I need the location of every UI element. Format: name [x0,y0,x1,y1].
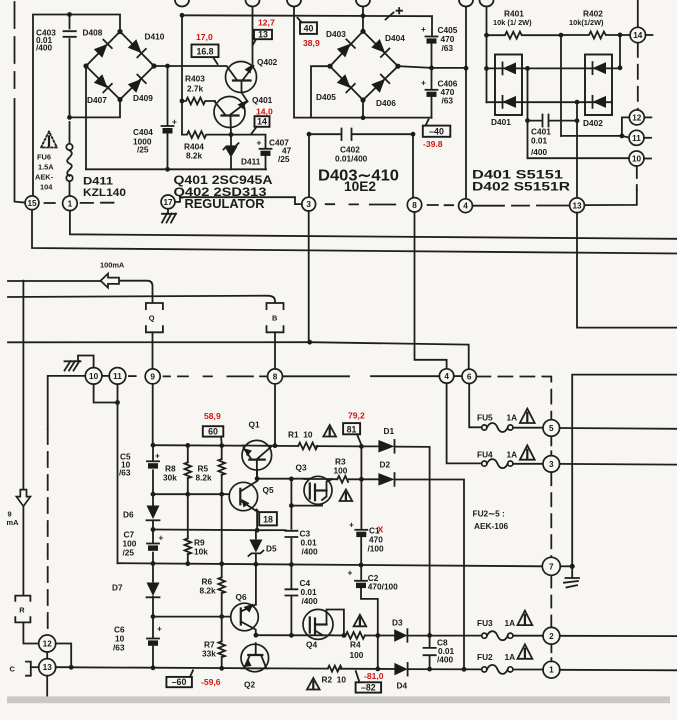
box label -82 [356,682,382,692]
mosfet Q4 [303,609,333,639]
node rail1 x275 [273,443,278,448]
svg-text:D5: D5 [266,544,277,554]
connector 3b [543,456,560,473]
wire dash 1-17 [81,202,114,204]
coil plug Q [146,303,163,332]
svg-text:–40: –40 [429,127,444,137]
capacitor C406 [426,89,438,91]
connector 5 [543,420,560,437]
wire x291 column [290,479,292,635]
svg-text:12,7: 12,7 [258,18,275,28]
svg-text:8.2k: 8.2k [186,151,203,161]
warning triangle R3 [340,490,353,502]
node y529 x257 [255,528,260,533]
box label -60 [166,677,192,687]
node ground 7 [570,564,575,569]
svg-text:FU3: FU3 [477,618,493,628]
svg-text:40: 40 [304,23,314,33]
svg-text:D410: D410 [145,32,165,42]
wire connector 3b right [560,463,677,466]
wire y478 row [257,479,464,669]
node y478 x291 [289,477,294,482]
svg-text:15: 15 [27,199,37,208]
wire x117 drop to rail2 [117,384,119,563]
box label 13 [254,30,272,39]
wire connector 5 right [560,427,677,430]
wire R5 column [221,446,223,669]
node x153 y529 [151,527,156,532]
node x486 R401 [484,33,489,38]
wire D5 column x256 [255,530,257,604]
node R401 R402 junction [559,33,564,38]
diode D4 [394,663,407,676]
svg-text:104: 104 [40,183,53,192]
diode pack D402 box [585,55,612,116]
node bridge1 right [151,63,156,68]
capacitor C5 [147,460,159,462]
connector 10m [85,368,102,385]
fuse FU2 [482,667,487,672]
node x153 rail2 [151,561,156,566]
svg-text:FU2: FU2 [477,652,493,662]
wire regulator box left [85,66,87,169]
current arrow 9mA [16,490,30,507]
svg-text:FU6: FU6 [37,153,51,162]
mosfet Q3 [304,476,332,504]
node R9 rail2 [185,561,190,566]
svg-text:/400: /400 [531,147,548,157]
connector arc top 294 [287,0,301,7]
svg-text:R4: R4 [350,640,361,650]
wire connector10 left [48,376,86,429]
wire 100mA line [8,281,153,303]
resistor R402 [561,32,630,39]
node x466 y68 [464,66,469,71]
diode bridge D407-D410 diamond [86,32,154,100]
wire x377 drop [377,636,379,669]
node C402 left [307,132,312,137]
resistor R9 [185,538,192,554]
svg-text:14: 14 [257,117,267,127]
svg-text:C404: C404 [133,127,153,137]
svg-text:R1 10: R1 10 [288,430,313,440]
node y478 x361 [359,477,364,482]
wire rail1 [153,445,430,447]
gray bottom bar [7,696,670,703]
svg-text:33k: 33k [202,649,216,659]
svg-text:AEK-: AEK- [35,173,54,182]
diode D402b [593,96,607,108]
capacitor C3 [285,531,297,537]
svg-text:R: R [19,605,25,614]
svg-text:14: 14 [633,31,643,40]
diode D401a [503,62,517,74]
node bridge1 bottom [117,97,122,102]
node y635 x291 [289,633,294,638]
wire C404 vertical [167,66,169,169]
wire y635 row [256,634,482,636]
connector 17 [161,195,175,209]
svg-text:16.8: 16.8 [196,46,213,56]
node bottom rail left [69,665,74,670]
node x291 y505 [289,503,294,508]
svg-text:6: 6 [467,372,472,381]
node x153 y616 [151,614,156,619]
wire dash 8-4 [428,204,454,206]
wire connector8 drop [412,134,414,197]
connector arc top 252 [246,0,260,7]
wire 4m-6m [454,375,462,377]
node R7 bottom [219,666,224,671]
svg-text:1: 1 [549,666,554,675]
svg-text:/63: /63 [442,43,454,53]
svg-text:100mA: 100mA [100,261,125,270]
transistor Q402 [226,62,257,93]
wire 13b drop to bar [46,676,48,696]
svg-text:+: + [421,24,426,34]
resistor R3 [337,476,348,483]
switch tick on bus2 [386,8,403,20]
warning triangle R2 [307,678,320,690]
svg-text:+: + [157,624,162,634]
svg-text:3: 3 [549,460,554,469]
svg-text:FU2∼5 :: FU2∼5 : [473,509,505,519]
svg-text:Q401: Q401 [252,95,273,105]
node y635 x377 [375,633,380,638]
node C8 bottom [427,667,432,672]
diode pack D401 box [495,55,522,116]
wire x638 dashed below 14 [637,43,639,110]
connector 1 [63,196,78,211]
connector arc top 182 [175,0,189,7]
svg-text:Q2: Q2 [244,680,255,690]
coil plug C [26,662,31,676]
warning triangle FU4 [520,445,535,459]
node top C403 [67,12,72,17]
transistor Q6 [231,603,259,631]
svg-text:/25: /25 [137,145,149,155]
wire connector9 drop [152,384,154,445]
svg-text:R2 10: R2 10 [322,675,347,685]
connector 13 [570,198,585,213]
svg-text:0.01: 0.01 [531,136,548,146]
wire dash 9-8 [164,375,268,377]
node bridge2 bottom drop [361,115,366,120]
svg-text:81: 81 [347,424,357,434]
svg-text:8.2k: 8.2k [196,473,213,483]
wire y494 [153,493,240,495]
wire right vert x572 [572,375,677,567]
node R402 right [618,33,623,38]
wire Q1 collector to y478 [256,463,258,479]
svg-text:C: C [10,665,16,674]
svg-text:FU5: FU5 [477,413,493,423]
node C405 C406 junction [429,66,434,71]
wire rail1 drop x429 [429,447,431,636]
resistor R7 [218,641,225,657]
box label 81 [343,423,360,434]
wire bridge1 out y66 [154,65,227,67]
wire bus B from connector 15 [32,210,677,254]
svg-text:14,0: 14,0 [256,107,273,117]
capacitor C2 [355,580,367,582]
connector 2 [543,627,560,644]
transistor Q5 [229,482,257,510]
svg-text:/400: /400 [302,596,319,606]
wire C405 column [431,16,434,118]
capacitor C403 [64,31,76,37]
transistor Q401 [214,97,245,128]
svg-text:D7: D7 [112,583,123,593]
wire R404 to C407 [231,135,266,170]
diode zener D411 [230,135,232,170]
wire left dashed edge [14,2,16,88]
svg-text:Q6: Q6 [236,592,247,602]
wire y296 to B coil [8,296,275,303]
wire rail2 [118,563,542,566]
node C404 top [165,64,170,69]
svg-text:5: 5 [549,424,554,433]
diode D408 [94,40,112,58]
node bus2 bridge2 [361,13,366,18]
warning triangle FU2 [518,644,533,658]
wire B drop from 8m [274,384,276,446]
wire chain 2-1b [550,644,552,661]
wire x23 drop [22,281,24,596]
svg-text:1A: 1A [507,413,518,423]
wire 12b-13b [46,652,48,659]
node rail1 x153 [151,443,156,448]
node rail2 x256 [254,562,259,567]
svg-text:10: 10 [89,372,99,381]
svg-text:D403: D403 [326,29,346,39]
capacitor C405 [426,36,438,38]
svg-text:/63: /63 [442,96,454,106]
svg-text:13: 13 [258,30,268,40]
svg-text:-39.8: -39.8 [423,139,443,149]
svg-text:12: 12 [632,113,642,122]
svg-text:Q1: Q1 [249,420,260,430]
svg-text:D411: D411 [83,176,113,188]
box label 60 [203,426,224,436]
capacitor C6 [147,638,159,640]
wire bus A from connector 1 [70,211,677,239]
wire right y327 [577,213,677,328]
box label 18 [259,512,277,525]
node rail2 x361 [359,563,364,568]
svg-text:D405: D405 [316,92,336,102]
ground under 17 [162,209,176,223]
wire top-left box [33,15,120,196]
current arrow 100mA [101,274,120,288]
svg-text:13: 13 [43,663,53,672]
wire regulator bottom rail [86,168,266,170]
svg-text:9: 9 [150,372,155,381]
resistor R1 [298,443,317,450]
svg-text:B: B [272,314,277,323]
svg-text:D402 S5151R: D402 S5151R [472,180,570,194]
svg-text:1A: 1A [507,450,518,460]
wire Q3 source jog [291,500,322,506]
svg-text:8.2k: 8.2k [200,586,217,596]
svg-text:/63: /63 [119,468,131,478]
node x486 diode row [484,66,489,71]
svg-text:R403: R403 [185,74,205,84]
diode D401b [503,96,517,108]
wire C5 column x153 [152,445,154,668]
connector arc top 363 [356,0,370,7]
svg-text:10: 10 [632,155,642,164]
svg-text:2: 2 [549,632,554,641]
wire dash 11-9 [129,375,136,377]
svg-text:–60: –60 [172,677,187,687]
node rail1 x188 [185,443,190,448]
node x577 bottom row [575,100,580,105]
node y342 x310 [307,340,312,345]
wire connector 2 right [560,635,677,637]
node y136 [620,134,625,139]
wire connector8 drop to mid jog [415,212,447,369]
node D411 top [229,132,234,137]
wire chain 10 to 13 [636,166,638,190]
svg-text:4: 4 [463,202,468,211]
svg-text:18: 18 [263,514,273,524]
svg-text:8: 8 [412,201,417,210]
wire 13b to node [56,666,71,668]
wire x528 drop [527,68,529,158]
svg-text:30k: 30k [163,473,177,483]
capacitor C4 [285,589,297,595]
svg-text:/400: /400 [437,655,454,665]
diode D402a [593,62,607,74]
svg-text:D4: D4 [397,681,408,691]
box label 40 [300,22,317,34]
resistor R403 [182,98,215,105]
node rail2 x222 [219,561,224,566]
node x620 [618,65,623,70]
diode D3 [394,629,407,642]
wire top bus2 [182,14,432,17]
svg-text:D3: D3 [392,618,403,628]
connector arc top 466 [459,0,473,7]
wire 10m bottom jog [94,384,118,402]
wire C403 branch top [69,15,71,144]
svg-text:0.01/400: 0.01/400 [335,154,368,164]
node bridge2 left [327,64,332,69]
wire left edge solid to connector 15 [15,99,26,203]
svg-text:10k(1/2W): 10k(1/2W) [569,18,604,27]
diode D403 [337,39,355,57]
node bridge1 left [83,63,88,68]
resistor R6 [218,577,225,593]
node C401 left [525,118,530,123]
svg-text:/100: /100 [368,544,385,554]
node R6 y616 [219,614,224,619]
wire 10m-11m [102,375,109,377]
connector 3 [302,197,316,211]
box label -40 [423,126,451,137]
connector 13b [39,659,56,676]
diode bridge D403-D406 diamond [330,31,398,100]
svg-text:13: 13 [572,201,582,210]
wire 4-13 [472,205,569,207]
svg-text:D411: D411 [241,157,261,167]
node C402 right [411,132,416,137]
svg-text:10E2: 10E2 [344,178,376,194]
connector 10 [629,151,644,166]
svg-text:FU4: FU4 [477,450,493,460]
svg-text:+: + [155,451,160,461]
svg-text:3: 3 [306,200,311,209]
node rail1 x361 [359,444,364,449]
svg-text:7: 7 [549,562,554,571]
node bridge2 bottom [360,97,365,102]
warning triangle R1 [323,425,336,437]
wire 7 to ground [560,565,572,567]
wire y136 to connectors 11 12 [561,117,629,137]
svg-text:+: + [159,533,164,543]
diode D409 [128,75,146,93]
transistor Q1 [242,440,272,470]
svg-text:/25: /25 [123,548,135,558]
svg-text:10k: 10k [194,547,208,557]
wire dash 3-8 [326,203,396,205]
svg-text:Q402: Q402 [257,57,278,67]
capacitor C401 [528,115,578,127]
svg-text:D402: D402 [583,118,603,128]
capacitor C402 [309,129,413,141]
capacitor C1 [355,529,367,531]
wire rect around bridge2 [311,66,432,117]
node Q6 out [254,633,259,638]
connector 11m [109,368,126,385]
warning triangle FU5 [520,409,535,423]
svg-text:8: 8 [273,372,278,381]
resistor R404 [182,131,231,138]
wire 12b jog to bottom rail [56,644,71,668]
svg-text:11: 11 [632,134,641,143]
wire bottom rail [71,667,482,669]
wire x577 drop to connector 13 [576,102,578,198]
svg-text:2.7k: 2.7k [187,84,204,94]
svg-text:mA: mA [7,518,20,527]
connector arc top 486 [480,0,494,7]
box label 14 [255,116,270,127]
connector 8m [268,369,283,384]
diode D2 [378,473,394,486]
wire chain x47 down [47,429,49,635]
wire x561 drop [560,35,562,136]
capacitor C404 [162,125,174,127]
svg-text:–82: –82 [361,683,376,693]
wire y616 [153,616,238,618]
diode D406 [371,75,389,93]
ground at connector 7 [564,566,579,587]
svg-text:D401: D401 [491,117,511,127]
svg-text:/25: /25 [278,154,290,164]
svg-text:D6: D6 [123,510,134,520]
wire drop x466 to connector 4 [465,7,467,199]
box label 16.8 [192,45,219,58]
resistor R5 [218,459,225,475]
wire FU5 feed [469,384,482,428]
connector 1b [543,661,560,678]
svg-text:+: + [349,520,354,530]
wire chain 7-2 [550,576,552,628]
wire bridge1 bottom to C403 line [70,100,121,118]
diode D1 [378,440,394,453]
svg-text:D409: D409 [133,93,153,103]
